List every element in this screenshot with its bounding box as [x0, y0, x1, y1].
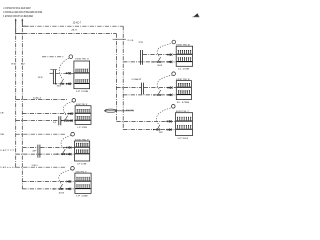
coil feeder L2 — [16, 133, 66, 135]
conductor upper L3 — [22, 181, 75, 183]
svg-text:2-#4: 2-#4 — [127, 40, 134, 42]
operator coil L0 — [69, 55, 73, 59]
svg-text:LP 1/3B: LP 1/3B — [77, 163, 87, 165]
meter lens tap — [104, 109, 134, 112]
disconnect switch L0 — [60, 79, 64, 85]
mech linkage R1 — [157, 43, 172, 56]
svg-text:EXIST PNL 'G': EXIST PNL 'G' — [76, 172, 87, 174]
svg-text:LP 204: LP 204 — [178, 138, 190, 140]
svg-text:3. EXTEND CIRCUITS AS REQUIRED: 3. EXTEND CIRCUITS AS REQUIRED — [3, 15, 33, 18]
disconnect switch L3 — [59, 184, 63, 190]
conductor upper L1 — [22, 113, 75, 115]
coil feeder L0 — [42, 56, 64, 58]
panelboard R3 — [176, 113, 193, 136]
branch L3 group — [16, 164, 91, 197]
stabs and fuse lower R1 — [167, 61, 170, 62]
branch R1 group — [123, 40, 192, 70]
stabs and fuse upper R3 — [167, 121, 170, 122]
flow arrow R1 — [152, 61, 154, 63]
coil feeder L1 — [16, 99, 68, 101]
svg-text:FS/2P: FS/2P — [126, 110, 134, 112]
panelboard L0 — [74, 61, 90, 89]
conductor lower R3 — [123, 129, 175, 131]
feeder H2 — [16, 33, 117, 35]
stabs and fuse lower R3 — [167, 129, 170, 130]
conductor upper R2 — [116, 87, 176, 89]
stabs and fuse upper R2 — [167, 87, 170, 88]
mech linkage L0 — [59, 58, 69, 78]
svg-text:LP 1/3B: LP 1/3B — [76, 195, 88, 197]
coil feeder L3 — [16, 166, 66, 168]
riser M1 — [122, 26, 124, 129]
margin callout 1 — [0, 150, 16, 152]
panelboard R2 — [176, 81, 191, 100]
transformer bars L0 — [53, 69, 55, 84]
transformer bars R2 — [141, 83, 143, 95]
mech linkage L1 — [63, 102, 72, 115]
branch L1 group — [16, 97, 91, 129]
svg-text:2. PROVIDE ALL NEW CIRCUIT BRE: 2. PROVIDE ALL NEW CIRCUIT BREAKERS AND … — [3, 11, 42, 14]
svg-text:2-20A/1P: 2-20A/1P — [131, 78, 142, 81]
branch L2 group — [16, 132, 90, 165]
svg-text:EXIST PNL 'D': EXIST PNL 'D' — [75, 58, 89, 60]
mech linkage R3 — [156, 108, 171, 124]
stabs and fuse lower L0 — [66, 83, 69, 84]
svg-text:LP 1/3B: LP 1/3B — [76, 91, 89, 93]
disconnect switch L2 — [62, 149, 66, 155]
riser M2 — [115, 34, 117, 122]
svg-text:EXIST PNL 'B': EXIST PNL 'B' — [176, 79, 190, 81]
branch R3 group — [116, 105, 192, 140]
conductor lower R1 — [123, 61, 176, 63]
bus riser L-B — [21, 18, 23, 189]
conductor upper R3 — [116, 120, 175, 122]
general notes text block — [3, 7, 42, 18]
panelboard L2 — [75, 141, 90, 161]
stabs and fuse lower L2 — [66, 154, 69, 155]
conductor upper L0 — [50, 72, 74, 74]
feeder H1 — [22, 25, 123, 27]
disconnect switch L1 — [64, 116, 68, 122]
mech linkage R2 — [157, 75, 172, 89]
operator coil R1 — [172, 40, 176, 44]
svg-text:22-AC-8: 22-AC-8 — [33, 97, 42, 100]
svg-text:EXIST PNL 'C': EXIST PNL 'C' — [176, 111, 190, 113]
panelboard R1 — [176, 46, 192, 66]
disconnect switch R2 — [157, 90, 161, 96]
disconnect switch R1 — [157, 57, 161, 63]
riser top stubs — [16, 21, 29, 35]
branch L0 group — [38, 55, 90, 93]
conductor lower L1 — [16, 120, 75, 122]
operator coil L3 — [71, 167, 75, 171]
flow arrow R3 — [153, 129, 155, 131]
conductor lower L2 — [16, 153, 75, 155]
disconnect switch R3 — [156, 125, 160, 131]
transformer bars L2 — [38, 145, 40, 158]
svg-text:LP 1/3B: LP 1/3B — [77, 127, 87, 129]
stabs and fuse lower L1 — [68, 120, 71, 121]
svg-text:1. CONTRACTOR SHALL FIELD VERI: 1. CONTRACTOR SHALL FIELD VERIFY — [3, 7, 31, 10]
tie link — [113, 38, 126, 40]
flow arrow L3 — [53, 188, 55, 190]
revision triangle marker — [193, 13, 200, 17]
svg-text:1L 1/3B: 1L 1/3B — [177, 102, 190, 104]
flow arrow L1 — [61, 120, 63, 122]
svg-text:EXIST PNL 'A': EXIST PNL 'A' — [176, 43, 190, 46]
conductor upper R1 — [143, 54, 176, 56]
operator coil R2 — [172, 72, 176, 76]
stabs and fuse lower L3 — [66, 188, 69, 189]
conductor upper L2 — [22, 147, 74, 149]
margin callout 2 — [0, 167, 16, 169]
stabs and fuse upper L3 — [66, 181, 69, 182]
mech linkage L3 — [59, 170, 71, 184]
operator coil L1 — [72, 99, 76, 103]
transformer bars L1 — [59, 116, 61, 125]
mech linkage L2 — [61, 136, 71, 149]
L0 riser detail — [50, 70, 57, 84]
operator coil L2 — [71, 132, 75, 136]
svg-text:1FS: 1FS — [38, 77, 44, 79]
panelboard L1 — [75, 106, 91, 125]
stabs and fuse upper L2 — [66, 147, 69, 148]
flow arrow L0 — [55, 83, 57, 85]
conductor lower L0 — [53, 83, 74, 85]
bus riser L-A — [15, 18, 17, 167]
svg-text:22-AC-9: 22-AC-9 — [32, 164, 39, 167]
panelboard L3 — [75, 173, 91, 193]
stabs and fuse upper L1 — [68, 113, 71, 114]
stabs and fuse upper R1 — [167, 54, 170, 55]
flow arrow L2 — [57, 153, 59, 155]
stabs and fuse upper L0 — [66, 73, 69, 74]
conductor lower L3 — [22, 188, 75, 190]
transformer bars R1 — [141, 50, 143, 65]
operator coil R3 — [172, 105, 176, 109]
conductor lower R2 — [123, 94, 176, 96]
flow arrow R2 — [154, 94, 156, 96]
svg-text:EXIST PNL 'E': EXIST PNL 'E' — [76, 104, 88, 106]
stabs and fuse lower R2 — [167, 94, 170, 95]
svg-text:EXIST PNL 'F': EXIST PNL 'F' — [75, 140, 90, 142]
svg-text:1L 1/3B: 1L 1/3B — [178, 69, 190, 71]
branch R2 group — [116, 72, 191, 104]
svg-text:22-AC-7: 22-AC-7 — [73, 22, 82, 25]
